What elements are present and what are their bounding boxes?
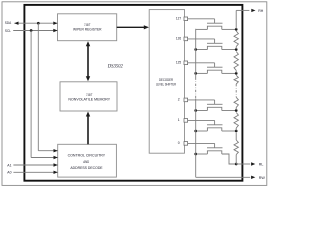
- wire drain S1 to ladder: [222, 130, 236, 132]
- wire source S0 to wiper bus: [196, 153, 208, 155]
- transistor switch S2: [207, 103, 223, 105]
- junction dot node 0 / RL: [235, 163, 238, 166]
- wire drain S2 to ladder: [222, 110, 236, 112]
- svg-text:RH: RH: [258, 8, 263, 13]
- junction dot bus 2: [194, 109, 197, 112]
- svg-text:126: 126: [176, 37, 181, 41]
- wire: [235, 70, 237, 72]
- junction dot bus 1: [194, 130, 197, 133]
- arrow A0 into control block: [54, 171, 58, 174]
- junction dot node 126: [235, 48, 238, 51]
- wire: [235, 107, 237, 110]
- wire SCL drop to control: [30, 31, 32, 158]
- svg-text:RL: RL: [259, 162, 264, 167]
- wire gate 1: [188, 119, 215, 121]
- wire SDA: [14, 22, 57, 24]
- ladder ellipsis (dash-dot): [235, 84, 237, 97]
- wire gate 127: [188, 18, 215, 20]
- wire A1: [13, 164, 57, 166]
- wire RH tap: [235, 10, 237, 28]
- svg-text:NONVOLATILE MEMORY: NONVOLATILE MEMORY: [68, 97, 110, 102]
- resistor R-up-2 (lower half): [234, 97, 238, 107]
- svg-text:AND: AND: [83, 159, 89, 164]
- arrow RW: [251, 176, 255, 179]
- arrow wiper register to NV memory (bidirectional): [87, 45, 89, 77]
- wire source S127 to wiper bus: [196, 28, 208, 30]
- arrow SCL into control block: [54, 156, 58, 159]
- junction dot bus 126: [194, 48, 197, 51]
- junction dot node 127: [235, 28, 238, 31]
- junction dot bus 0: [194, 153, 197, 156]
- wire drain S126 to ladder: [222, 49, 236, 51]
- pin square 126: [184, 37, 188, 41]
- svg-text:125: 125: [176, 61, 181, 65]
- wire drain S127 to ladder: [222, 28, 236, 30]
- block U4 decoder level shifter: [149, 10, 184, 154]
- transistor switch S127: [207, 22, 223, 24]
- resistor R127-126: [234, 31, 238, 47]
- transistor switch S125: [207, 66, 223, 68]
- wire source S2 to wiper bus: [196, 110, 208, 112]
- junction dot node 125: [235, 72, 238, 75]
- resistor R126-125: [234, 52, 238, 71]
- wire: [235, 47, 237, 49]
- svg-text:SCL: SCL: [5, 28, 12, 33]
- arrow SDA into wiper register: [53, 22, 57, 25]
- wire: [235, 133, 237, 140]
- arrow A1 into control block: [54, 163, 58, 166]
- resistor R125-down (upper half): [234, 75, 238, 84]
- junction dot SCL: [30, 29, 33, 32]
- wire gate 126: [188, 38, 215, 40]
- pin square 0: [184, 142, 188, 146]
- wire gate 125: [188, 62, 215, 64]
- wire gate 0: [188, 142, 215, 144]
- arrow control to NV memory: [87, 116, 89, 145]
- block U2 7-bit nonvolatile memory: [60, 82, 117, 111]
- transistor switch S0: [207, 147, 223, 149]
- arrow SDA into control block: [54, 149, 58, 152]
- svg-text:A1: A1: [7, 162, 12, 167]
- arrow RL: [251, 162, 255, 165]
- pin square 127: [184, 17, 188, 21]
- junction dot bus 125: [194, 72, 197, 75]
- wire SCL: [13, 30, 57, 32]
- svg-text:A0: A0: [7, 170, 12, 175]
- bus arrow wiper register to decoder: [117, 26, 145, 28]
- resistor R2-1: [234, 113, 238, 129]
- pin square 1: [184, 119, 188, 123]
- wire: [235, 128, 237, 130]
- wire wiper bus to RW: [196, 176, 251, 178]
- outer frame: [2, 2, 267, 186]
- wire source S126 to wiper bus: [196, 49, 208, 51]
- block U1 7-bit wiper register: [58, 14, 117, 41]
- arrow SDA out (left): [14, 22, 18, 25]
- svg-text:ADDRESS DECODE: ADDRESS DECODE: [70, 165, 102, 170]
- wiper bus vertical: [195, 29, 197, 78]
- arrow RH: [251, 9, 255, 12]
- svg-text:127: 127: [176, 17, 181, 21]
- wire SDA drop to control: [37, 23, 39, 151]
- wire A0: [13, 171, 57, 173]
- resistor R1-0: [234, 140, 238, 155]
- junction dot node 1: [235, 130, 238, 133]
- pin square 125: [184, 61, 188, 65]
- svg-text:2: 2: [178, 98, 180, 102]
- svg-text:RW: RW: [259, 175, 265, 180]
- wire source S1 to wiper bus: [196, 130, 208, 132]
- wire RL: [236, 163, 250, 165]
- transistor switch S126: [207, 42, 223, 44]
- transistor switch S1: [207, 124, 223, 126]
- wire gate 2: [188, 99, 215, 101]
- svg-text:DS3502: DS3502: [107, 64, 123, 70]
- svg-text:WIPER REGISTER: WIPER REGISTER: [73, 27, 102, 32]
- wire drain S0 to RL node: [222, 154, 236, 164]
- svg-text:SDA: SDA: [5, 20, 12, 25]
- arrow SCL into wiper register: [53, 29, 57, 32]
- svg-text:CONTROL CIRCUITRY: CONTROL CIRCUITRY: [68, 153, 106, 158]
- wire source S125 to wiper bus: [196, 72, 208, 74]
- chip boundary DS3502: [24, 5, 242, 181]
- junction dot node 2: [235, 109, 238, 112]
- wire drain S125 to ladder: [222, 72, 236, 74]
- svg-text:1: 1: [178, 118, 180, 122]
- pin square 2: [184, 98, 188, 102]
- block U3 control circuitry and address decode: [58, 144, 117, 177]
- svg-text:0: 0: [178, 141, 180, 145]
- junction dot SDA: [37, 22, 40, 25]
- svg-text:LEVEL SHIFTER: LEVEL SHIFTER: [156, 82, 176, 87]
